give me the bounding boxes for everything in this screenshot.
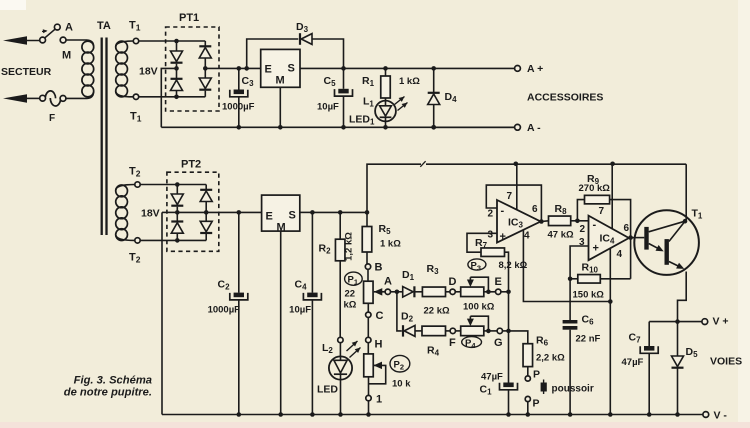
svg-text:47 kΩ: 47 kΩ <box>548 230 574 241</box>
svg-text:18V: 18V <box>141 208 160 220</box>
svg-text:SECTEUR: SECTEUR <box>1 66 52 78</box>
svg-text:TA: TA <box>97 20 111 32</box>
svg-text:F: F <box>49 113 55 124</box>
svg-text:2: 2 <box>488 209 494 220</box>
svg-text:8,2 kΩ: 8,2 kΩ <box>499 260 528 271</box>
svg-text:1000µF: 1000µF <box>222 102 255 113</box>
svg-text:Fig. 3. Schéma: Fig. 3. Schéma <box>74 375 152 387</box>
svg-text:E: E <box>265 64 272 76</box>
svg-text:22: 22 <box>345 289 356 300</box>
svg-text:B: B <box>375 262 383 274</box>
svg-text:A -: A - <box>527 122 541 134</box>
svg-text:PT1: PT1 <box>179 12 199 24</box>
svg-text:2,2 kΩ: 2,2 kΩ <box>536 353 565 364</box>
svg-text:E: E <box>495 276 502 288</box>
svg-text:270 kΩ: 270 kΩ <box>579 183 611 194</box>
svg-text:+: + <box>593 243 599 255</box>
svg-text:de notre pupitre.: de notre pupitre. <box>64 387 152 399</box>
svg-text:+: + <box>500 231 506 243</box>
svg-text:P: P <box>533 398 540 410</box>
svg-text:PT2: PT2 <box>181 159 201 171</box>
svg-text:3: 3 <box>488 230 494 241</box>
svg-text:D: D <box>449 276 457 288</box>
svg-text:S: S <box>288 63 295 75</box>
svg-text:6: 6 <box>532 204 538 215</box>
svg-text:3: 3 <box>579 237 585 248</box>
svg-text:M: M <box>277 222 286 234</box>
svg-text:A +: A + <box>527 63 543 75</box>
svg-text:22 nF: 22 nF <box>576 334 601 345</box>
svg-text:10µF: 10µF <box>289 305 311 316</box>
svg-text:18V: 18V <box>139 66 158 78</box>
svg-text:G: G <box>494 337 503 349</box>
svg-text:ACCESSOIRES: ACCESSOIRES <box>527 92 603 104</box>
svg-text:47µF: 47µF <box>622 357 644 368</box>
svg-text:E: E <box>266 211 273 223</box>
svg-text:V -: V - <box>714 410 728 422</box>
svg-text:1 kΩ: 1 kΩ <box>399 76 420 87</box>
svg-text:7: 7 <box>507 191 513 202</box>
svg-text:LED: LED <box>317 384 338 396</box>
svg-text:H: H <box>375 339 383 351</box>
svg-text:4: 4 <box>524 231 530 242</box>
svg-text:10µF: 10µF <box>317 102 339 113</box>
svg-text:2: 2 <box>580 224 586 235</box>
svg-text:C: C <box>376 310 384 322</box>
svg-text:poussoir: poussoir <box>552 384 594 395</box>
svg-text:10 k: 10 k <box>392 379 411 390</box>
svg-text:22 kΩ: 22 kΩ <box>424 306 450 317</box>
svg-text:4: 4 <box>617 249 623 260</box>
svg-text:S: S <box>289 210 296 222</box>
svg-text:1,2 kΩ: 1,2 kΩ <box>344 232 355 261</box>
svg-text:V +: V + <box>713 316 729 328</box>
svg-text:-: - <box>593 219 597 231</box>
svg-text:100 kΩ: 100 kΩ <box>463 302 495 313</box>
svg-text:F: F <box>449 337 456 349</box>
svg-text:6: 6 <box>624 223 630 234</box>
svg-text:kΩ: kΩ <box>344 300 357 311</box>
svg-text:A: A <box>384 276 392 288</box>
svg-text:A: A <box>65 22 73 34</box>
svg-text:1 kΩ: 1 kΩ <box>380 239 401 250</box>
svg-text:7: 7 <box>599 206 605 217</box>
svg-text:M: M <box>276 75 285 87</box>
svg-text:P: P <box>533 369 540 381</box>
svg-text:-: - <box>501 205 505 217</box>
svg-text:M: M <box>62 50 71 62</box>
svg-text:1000µF: 1000µF <box>208 305 241 316</box>
svg-text:1: 1 <box>376 394 382 406</box>
svg-text:47µF: 47µF <box>481 372 503 383</box>
svg-text:150 kΩ: 150 kΩ <box>573 290 605 301</box>
svg-text:VOIES: VOIES <box>710 356 742 368</box>
